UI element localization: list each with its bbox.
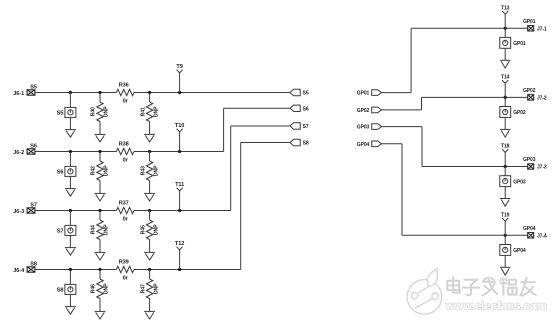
junction node S7 testpoint branch bbox=[69, 209, 72, 212]
junction node GP03 junction bbox=[504, 165, 507, 168]
junction node S7 T11 branch bbox=[178, 209, 181, 212]
ground bbox=[500, 199, 510, 207]
wire to ground bbox=[99, 299, 101, 312]
junction node S8 R46 branch bbox=[98, 268, 101, 271]
wire GP03 to junction bbox=[422, 166, 505, 168]
wire S5 from J6-1 to R36 bbox=[35, 92, 117, 94]
wire S7 to corner bbox=[180, 210, 231, 212]
wire GP01 horizontal bbox=[382, 92, 412, 94]
svg-text:GP03: GP03 bbox=[513, 179, 526, 185]
svg-text:S7: S7 bbox=[303, 124, 309, 130]
svg-text:DNP: DNP bbox=[104, 224, 110, 235]
svg-text:R47: R47 bbox=[140, 284, 146, 293]
svg-text:T19: T19 bbox=[501, 212, 510, 218]
wire GP01 to J7-1 bbox=[505, 27, 528, 29]
svg-text:S8: S8 bbox=[303, 141, 309, 147]
wire to R46 bbox=[99, 270, 101, 280]
wire to R44 bbox=[99, 211, 101, 221]
junction node GP01 junction bbox=[504, 27, 507, 30]
ground bbox=[144, 193, 155, 201]
wire to testpoint S7 bbox=[69, 211, 71, 226]
test point T11 bbox=[177, 188, 183, 211]
resistor R43 bbox=[146, 161, 152, 181]
wire to ground bbox=[149, 181, 151, 194]
svg-text:T14: T14 bbox=[501, 75, 510, 81]
svg-text:J6-4: J6-4 bbox=[13, 268, 25, 274]
svg-text:GP01: GP01 bbox=[523, 19, 536, 25]
svg-text:S7: S7 bbox=[30, 202, 37, 208]
wire GP04 vertical bbox=[401, 144, 403, 236]
wire GP02 vertical bbox=[421, 97, 423, 110]
ground bbox=[95, 311, 106, 319]
wire S8 to corner bbox=[180, 269, 241, 271]
svg-text:GP04: GP04 bbox=[513, 248, 526, 254]
svg-text:0r: 0r bbox=[123, 98, 129, 104]
wire to ground bbox=[99, 240, 101, 253]
svg-text:0r: 0r bbox=[123, 275, 129, 281]
wire to testpoint GP02 bbox=[504, 97, 506, 106]
junction node S7 R44 branch bbox=[98, 209, 101, 212]
svg-text:R46: R46 bbox=[91, 284, 97, 293]
wire to testpoint GP03 bbox=[504, 167, 506, 176]
wire S7 from J6-3 to R37 bbox=[35, 210, 117, 212]
svg-text:DNP: DNP bbox=[153, 224, 159, 235]
junction node S6 testpoint branch bbox=[69, 150, 72, 153]
wire GP04 horizontal bbox=[382, 143, 402, 145]
junction node S8 R47 branch bbox=[148, 268, 151, 271]
test point T13 bbox=[502, 11, 508, 28]
svg-text:J6-2: J6-2 bbox=[13, 150, 24, 156]
wire S6 to tag bbox=[224, 107, 290, 109]
test point T12 bbox=[177, 247, 183, 270]
wire S8 from R39 bbox=[134, 269, 180, 271]
test point T10 bbox=[177, 129, 183, 152]
ground bbox=[65, 189, 76, 197]
test point T9 bbox=[177, 70, 183, 93]
svg-text:T18: T18 bbox=[501, 144, 510, 150]
watermark: elecfans logo bbox=[407, 269, 442, 315]
ground bbox=[500, 129, 510, 137]
wire to ground bbox=[69, 117, 71, 129]
svg-text:0r: 0r bbox=[123, 157, 129, 163]
wire GP02 to J7-2 bbox=[505, 96, 528, 98]
wire to testpoint S5 bbox=[69, 93, 71, 108]
wire GP04 to J7-4 bbox=[505, 234, 528, 236]
wire S6 vertical bbox=[223, 108, 225, 151]
test point T14 bbox=[502, 80, 508, 97]
ground bbox=[144, 134, 155, 142]
svg-text:S6: S6 bbox=[57, 170, 64, 176]
test point S8 bbox=[65, 284, 76, 294]
ground bbox=[65, 248, 76, 256]
wire to testpoint GP01 bbox=[504, 28, 506, 37]
svg-text:S6: S6 bbox=[303, 107, 309, 113]
connector J7-1 pin bbox=[528, 26, 534, 31]
wire to ground bbox=[149, 240, 151, 253]
wire to R43 bbox=[149, 152, 151, 162]
svg-text:R41: R41 bbox=[140, 107, 146, 116]
svg-text:J7-4: J7-4 bbox=[537, 234, 547, 240]
svg-text:J7-2: J7-2 bbox=[537, 96, 547, 102]
off-page tag S7 bbox=[290, 123, 300, 129]
wire GP04 to junction bbox=[402, 234, 505, 236]
wire to ground bbox=[69, 235, 71, 247]
wire to ground bbox=[99, 122, 101, 135]
resistor R38 bbox=[116, 148, 134, 154]
svg-text:S8: S8 bbox=[57, 288, 64, 294]
wire S8 from J6-4 to R39 bbox=[35, 269, 117, 271]
wire S5 from R36 bbox=[134, 92, 180, 94]
svg-text:DNP: DNP bbox=[153, 106, 159, 117]
wire to R41 bbox=[149, 93, 151, 103]
test point GP02 bbox=[500, 107, 511, 118]
svg-text:S6: S6 bbox=[30, 143, 37, 149]
junction node S5 R41 branch bbox=[148, 91, 151, 94]
junction node S5 T9 branch bbox=[178, 91, 181, 94]
connector J6-2 pin bbox=[27, 149, 35, 154]
wire to R47 bbox=[149, 270, 151, 280]
svg-text:GP02: GP02 bbox=[357, 108, 370, 114]
input tag GP04 bbox=[372, 141, 382, 147]
ground bbox=[144, 252, 155, 260]
wire to ground bbox=[69, 176, 71, 188]
svg-text:R40: R40 bbox=[91, 107, 97, 116]
svg-text:J6-3: J6-3 bbox=[13, 209, 24, 215]
test point GP04 bbox=[500, 245, 511, 256]
svg-text:DNP: DNP bbox=[104, 106, 110, 117]
connector J6-3 pin bbox=[27, 208, 35, 213]
test point S5 bbox=[65, 107, 76, 117]
resistor R46 bbox=[97, 279, 103, 299]
ground bbox=[500, 267, 510, 275]
watermark: chinese text dian zi fa shao you bbox=[447, 277, 536, 295]
svg-text:S5: S5 bbox=[57, 111, 64, 117]
resistor R47 bbox=[146, 279, 152, 299]
wire S6 from J6-2 to R38 bbox=[35, 151, 117, 153]
wire to ground bbox=[149, 299, 151, 312]
resistor R36 bbox=[116, 89, 134, 95]
test point GP03 bbox=[500, 176, 511, 187]
wire to ground bbox=[504, 118, 506, 130]
ground bbox=[144, 311, 155, 319]
test point S6 bbox=[65, 166, 76, 176]
connector J6-1 pin bbox=[27, 90, 35, 95]
junction node S6 R42 branch bbox=[98, 150, 101, 153]
test point S7 bbox=[65, 225, 76, 235]
svg-text:T13: T13 bbox=[501, 5, 510, 11]
junction node GP02 junction bbox=[504, 96, 507, 99]
junction node S8 testpoint branch bbox=[69, 268, 72, 271]
junction node S7 R45 branch bbox=[148, 209, 151, 212]
svg-text:DNP: DNP bbox=[104, 165, 110, 176]
svg-text:S7: S7 bbox=[57, 229, 64, 235]
input tag GP02 bbox=[372, 107, 382, 113]
test point GP01 bbox=[500, 37, 511, 48]
ground bbox=[65, 307, 76, 315]
svg-text:www.elecfans.com: www.elecfans.com bbox=[445, 301, 548, 313]
wire to ground bbox=[504, 187, 506, 199]
svg-text:J6-1: J6-1 bbox=[13, 91, 24, 97]
ground bbox=[95, 134, 106, 142]
resistor R45 bbox=[146, 220, 152, 240]
svg-text:R39: R39 bbox=[119, 259, 129, 265]
svg-text:R38: R38 bbox=[119, 141, 129, 147]
wire S8 vertical bbox=[240, 143, 242, 270]
wire to ground bbox=[99, 181, 101, 194]
svg-text:T10: T10 bbox=[175, 123, 184, 129]
resistor R37 bbox=[116, 207, 134, 213]
wire GP02 horizontal bbox=[382, 109, 422, 111]
svg-text:DNP: DNP bbox=[153, 165, 159, 176]
wire to R45 bbox=[149, 211, 151, 221]
wire to ground bbox=[149, 122, 151, 135]
svg-text:GP02: GP02 bbox=[523, 88, 536, 94]
resistor R39 bbox=[116, 266, 134, 272]
junction node S8 T12 branch bbox=[178, 268, 181, 271]
connector J7-2 pin bbox=[528, 95, 534, 100]
off-page tag S5 bbox=[290, 89, 300, 95]
ground bbox=[65, 130, 76, 138]
input tag GP03 bbox=[372, 124, 382, 130]
svg-text:R42: R42 bbox=[91, 166, 97, 175]
wire S5 to tag bbox=[180, 92, 290, 94]
ground bbox=[95, 193, 106, 201]
svg-text:GP01: GP01 bbox=[513, 41, 526, 47]
wire S6 to corner bbox=[180, 151, 224, 153]
junction node S5 R40 branch bbox=[98, 91, 101, 94]
wire to ground bbox=[504, 255, 506, 267]
ground bbox=[95, 252, 106, 260]
resistor R40 bbox=[97, 102, 103, 122]
wire S7 to tag bbox=[231, 125, 290, 127]
wire GP02 to junction bbox=[422, 96, 506, 98]
wire S6 from R38 bbox=[134, 151, 180, 153]
svg-text:S5: S5 bbox=[303, 91, 309, 97]
wire GP03 horizontal bbox=[382, 126, 422, 128]
svg-text:GP01: GP01 bbox=[357, 91, 370, 97]
wire to testpoint S8 bbox=[69, 270, 71, 285]
off-page tag S6 bbox=[290, 105, 300, 111]
svg-text:GP04: GP04 bbox=[357, 142, 370, 148]
junction node GP04 junction bbox=[504, 234, 507, 237]
svg-text:DNP: DNP bbox=[153, 283, 159, 294]
wire to ground bbox=[504, 48, 506, 60]
wire to R40 bbox=[99, 93, 101, 103]
junction node S6 T10 branch bbox=[178, 150, 181, 153]
svg-text:GP03: GP03 bbox=[523, 157, 536, 163]
ground bbox=[500, 60, 510, 68]
resistor R41 bbox=[146, 102, 152, 122]
svg-text:R45: R45 bbox=[140, 225, 146, 234]
connector J6-4 pin bbox=[27, 267, 35, 272]
svg-text:T9: T9 bbox=[176, 64, 182, 70]
wire GP03 to J7-3 bbox=[505, 166, 528, 168]
wire to testpoint GP04 bbox=[504, 235, 506, 244]
wire S7 from R37 bbox=[134, 210, 180, 212]
svg-text:GP04: GP04 bbox=[523, 226, 536, 232]
svg-text:J7-1: J7-1 bbox=[537, 27, 547, 33]
wire to testpoint S6 bbox=[69, 152, 71, 167]
junction node S6 R43 branch bbox=[148, 150, 151, 153]
wire GP03 vertical bbox=[421, 127, 423, 167]
svg-text:R44: R44 bbox=[91, 225, 97, 234]
wire to R42 bbox=[99, 152, 101, 162]
svg-text:S5: S5 bbox=[30, 84, 37, 90]
wire S8 to tag bbox=[241, 142, 290, 144]
svg-text:R37: R37 bbox=[119, 200, 129, 206]
svg-text:0r: 0r bbox=[123, 216, 129, 222]
svg-text:S8: S8 bbox=[30, 261, 37, 267]
test point T19 bbox=[502, 218, 508, 235]
resistor R42 bbox=[97, 161, 103, 181]
connector J7-4 pin bbox=[528, 233, 534, 238]
svg-text:R36: R36 bbox=[119, 82, 129, 88]
junction node S5 testpoint branch bbox=[69, 91, 72, 94]
resistor R44 bbox=[97, 220, 103, 240]
wire GP01 to junction bbox=[411, 27, 505, 29]
wire GP01 vertical bbox=[410, 28, 412, 92]
connector J7-3 pin bbox=[528, 164, 534, 169]
wire S7 vertical bbox=[230, 126, 232, 211]
test point T18 bbox=[502, 149, 508, 166]
svg-text:GP03: GP03 bbox=[357, 125, 370, 131]
svg-text:R43: R43 bbox=[140, 166, 146, 175]
input tag GP01 bbox=[372, 90, 382, 96]
off-page tag S8 bbox=[290, 139, 300, 145]
svg-text:J7-3: J7-3 bbox=[537, 165, 547, 171]
svg-text:GP02: GP02 bbox=[513, 110, 526, 116]
svg-text:DNP: DNP bbox=[104, 283, 110, 294]
svg-text:T11: T11 bbox=[175, 182, 184, 188]
svg-text:T12: T12 bbox=[175, 241, 184, 247]
wire to ground bbox=[69, 294, 71, 306]
